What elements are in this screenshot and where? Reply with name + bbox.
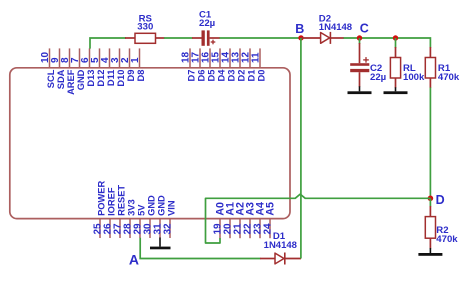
capacitor C1 22u: [192, 30, 220, 45]
wire 5V pin29 to node A to D1: [140, 238, 260, 259]
svg-text:C: C: [360, 22, 369, 36]
svg-text:SCL: SCL: [46, 69, 56, 88]
svg-text:D0: D0: [257, 70, 267, 82]
node C junction: [357, 22, 369, 41]
svg-text:GND: GND: [76, 69, 86, 90]
IC pin 17 D6: [191, 48, 207, 81]
IC pin 26 IOREF: [103, 187, 117, 238]
IC pin 32 VIN: [163, 200, 177, 238]
resistor R1 470k: [425, 47, 435, 88]
resistor R2 470k: [425, 198, 435, 248]
IC pin 5 D12: [90, 48, 106, 86]
diode D1 1N4148: [260, 253, 301, 265]
IC pin 12 D1: [241, 48, 257, 81]
svg-text:470k: 470k: [436, 234, 458, 245]
IC pin 21 A2: [233, 202, 247, 238]
wire D1 up to node B: [300, 38, 302, 259]
label D1 1N4148: [264, 231, 297, 251]
IC pin 19 A0: [213, 202, 227, 238]
svg-text:A5: A5: [265, 202, 277, 216]
svg-text:1N4148: 1N4148: [264, 240, 297, 251]
svg-text:GND: GND: [157, 195, 167, 216]
wire R1 to node D: [429, 88, 431, 199]
IC pin 22 A3: [243, 202, 257, 238]
IC pin 11 D0: [251, 48, 267, 81]
IC pin 20 A1: [223, 202, 237, 238]
IC pin 31 GND: [153, 195, 167, 238]
svg-text:100k: 100k: [403, 72, 425, 83]
svg-text:1: 1: [130, 57, 141, 63]
svg-text:B: B: [295, 22, 304, 36]
svg-text:RESET: RESET: [117, 185, 127, 216]
wire C1 to node B: [220, 37, 302, 39]
svg-text:D1: D1: [247, 70, 257, 82]
label RL 100k: [403, 63, 425, 83]
svg-text:SDA: SDA: [56, 69, 66, 89]
label D2 1N4148: [319, 13, 352, 33]
node D junction: [428, 193, 445, 207]
svg-text:D10: D10: [116, 70, 126, 87]
op-amp U1 Arduino IC body outline: [10, 68, 290, 219]
IC pin 4 D11: [100, 48, 116, 86]
svg-text:1N4148: 1N4148: [319, 22, 352, 33]
IC pin 28 3V3: [123, 199, 137, 238]
IC pin 9 SDA: [50, 48, 66, 89]
IC pin 14 D3: [221, 48, 237, 81]
svg-text:A: A: [129, 251, 139, 267]
svg-text:GND: GND: [147, 195, 157, 216]
ground below R2: [418, 248, 442, 256]
label R2 470k: [436, 225, 458, 245]
svg-text:470k: 470k: [438, 72, 460, 83]
svg-text:22µ: 22µ: [370, 72, 386, 83]
IC pin 6 D13: [80, 48, 96, 86]
svg-text:24: 24: [263, 223, 274, 235]
label RS 330: [137, 13, 153, 32]
svg-text:VIN: VIN: [167, 200, 177, 216]
IC pin 16 D5: [201, 48, 217, 81]
label C2 22u: [370, 63, 386, 83]
svg-text:5V: 5V: [137, 204, 147, 216]
IC pin 24 A5: [263, 202, 277, 238]
IC pin 23 A4: [253, 202, 267, 238]
ground at IC pin 31: [150, 238, 171, 250]
IC pin 30 GND: [143, 195, 157, 238]
svg-text:D5: D5: [207, 70, 217, 82]
IC pin 2 D9: [120, 48, 136, 81]
svg-text:22µ: 22µ: [199, 18, 215, 29]
resistor RL 100k: [390, 38, 400, 88]
wire D2 to node C to top-right corner: [344, 38, 431, 48]
svg-text:D12: D12: [96, 70, 106, 87]
svg-text:D7: D7: [187, 70, 197, 82]
ground below RL: [384, 87, 408, 94]
svg-text:D13: D13: [86, 70, 96, 87]
svg-text:D: D: [436, 193, 445, 207]
svg-text:D8: D8: [136, 70, 146, 82]
IC pin 1 D8: [130, 48, 146, 81]
IC pin 3 D10: [110, 48, 126, 86]
svg-text:D2: D2: [237, 70, 247, 82]
IC pin 25 POWER: [93, 180, 107, 238]
IC pin 29 5V: [133, 204, 147, 238]
IC pin 10 SCL: [40, 48, 56, 88]
label R1 470k: [438, 63, 460, 83]
IC pin 18 D7: [181, 48, 197, 81]
svg-text:D4: D4: [217, 69, 227, 82]
IC pin 7 GND: [70, 48, 86, 90]
svg-text:D9: D9: [126, 70, 136, 82]
svg-text:11: 11: [251, 52, 262, 63]
IC pin 13 D2: [231, 48, 247, 81]
diode D2 1N4148: [301, 32, 344, 44]
ground below C2: [348, 86, 372, 94]
wire D13 to RS: [90, 38, 126, 49]
IC pin 15 D4: [211, 48, 227, 81]
wire A0 pin19 to node D with crossover hop: [206, 194, 431, 243]
resistor RS: [125, 33, 165, 43]
junction RL tap: [393, 35, 398, 40]
label C1 22u: [199, 9, 215, 29]
capacitor C2 22u: [350, 38, 369, 87]
IC pin 27 RESET: [113, 185, 127, 238]
svg-text:D11: D11: [106, 70, 116, 87]
svg-text:IOREF: IOREF: [107, 187, 117, 216]
svg-text:3V3: 3V3: [127, 199, 137, 216]
IC pin 8 AREF: [60, 48, 76, 95]
svg-text:32: 32: [163, 223, 174, 235]
svg-text:330: 330: [137, 21, 153, 32]
svg-text:AREF: AREF: [66, 69, 76, 95]
wire RS to C1: [164, 37, 193, 39]
svg-text:D3: D3: [227, 70, 237, 82]
node B junction: [295, 22, 304, 41]
svg-text:D6: D6: [197, 70, 207, 82]
svg-text:POWER: POWER: [97, 180, 107, 215]
